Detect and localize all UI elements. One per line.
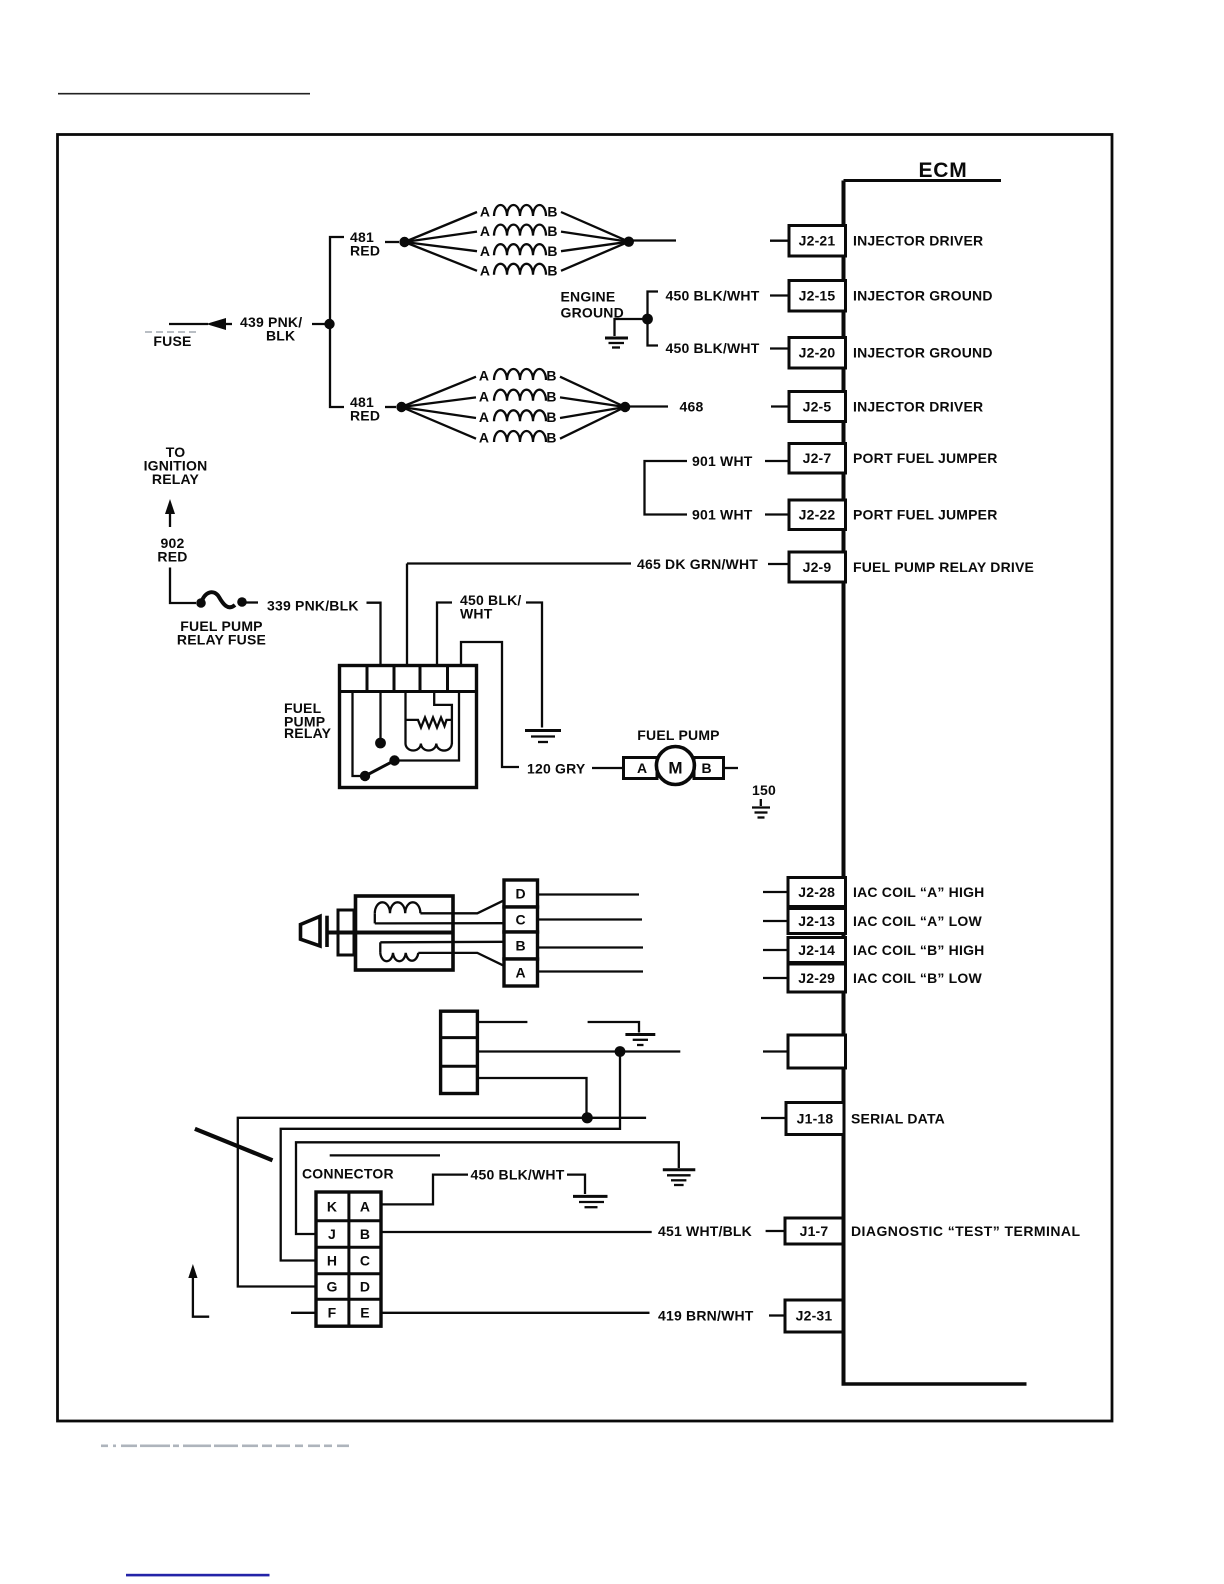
border frame — [58, 135, 1113, 1422]
fuse symbol (fuel pump relay fuse) — [196, 592, 258, 608]
svg-text:WHT: WHT — [460, 605, 493, 621]
svg-text:A: A — [360, 1199, 370, 1215]
svg-text:IAC COIL “A” LOW: IAC COIL “A” LOW — [853, 913, 983, 929]
relay switch contacts — [360, 692, 459, 782]
svg-text:A: A — [479, 368, 489, 384]
svg-text:J2-7: J2-7 — [803, 450, 832, 466]
wire J row trunk to ground — [296, 1142, 679, 1234]
ground (450 BLK/WHT ALDL) — [573, 1196, 608, 1207]
wire 465 DK GRN/WHT — [407, 564, 789, 666]
fuel pump motor — [624, 747, 739, 785]
wire 3-cell top — [477, 1021, 527, 1023]
svg-text:RELAY: RELAY — [284, 725, 332, 741]
pin J2-21 — [770, 226, 983, 257]
diagonal slash — [195, 1129, 273, 1161]
wire A pin to 450 BLK/WHT — [381, 1175, 468, 1205]
wire IAC B — [538, 946, 644, 948]
wire 439 PNK/BLK with arrow to fuse — [169, 318, 330, 330]
svg-text:INJECTOR DRIVER: INJECTOR DRIVER — [853, 233, 983, 249]
wire 450 BLK/WHT upper to J2-15 — [648, 292, 790, 320]
svg-text:J2-15: J2-15 — [799, 288, 836, 304]
relay left inner wire — [353, 692, 361, 777]
engine ground label — [561, 288, 624, 320]
svg-text:IAC COIL “A” HIGH: IAC COIL “A” HIGH — [853, 884, 984, 900]
injector coil bank1 row2 — [405, 223, 629, 242]
IAC coil A (top) — [375, 900, 504, 923]
svg-text:B: B — [360, 1226, 370, 1242]
injector coil bank1 row3 — [405, 242, 629, 259]
svg-text:J1-18: J1-18 — [797, 1111, 834, 1127]
svg-text:J2-5: J2-5 — [803, 399, 832, 415]
svg-text:D: D — [516, 886, 526, 902]
svg-text:B: B — [546, 368, 556, 384]
pin J2-5 — [789, 392, 983, 422]
svg-text:B: B — [547, 243, 557, 259]
wire IAC C — [538, 918, 643, 920]
svg-text:450 BLK/WHT: 450 BLK/WHT — [471, 1166, 565, 1182]
pin J2-13 — [763, 909, 983, 934]
svg-text:K: K — [327, 1199, 337, 1215]
svg-text:A: A — [479, 430, 489, 446]
svg-text:G: G — [326, 1279, 337, 1295]
relay coil — [406, 692, 452, 751]
svg-text:IAC COIL “B” HIGH: IAC COIL “B” HIGH — [853, 942, 984, 958]
svg-text:RELAY FUSE: RELAY FUSE — [177, 632, 266, 648]
wire stub to J1-7 — [766, 1230, 785, 1232]
svg-text:J2-29: J2-29 — [798, 970, 835, 986]
svg-text:A: A — [479, 409, 489, 425]
IAC thread block — [338, 910, 354, 955]
svg-text:IAC COIL “B” LOW: IAC COIL “B” LOW — [853, 970, 983, 986]
pin J1-7 — [785, 1218, 1080, 1244]
svg-text:FUEL PUMP RELAY DRIVE: FUEL PUMP RELAY DRIVE — [853, 559, 1034, 575]
wire 450 BLK/WHT right branch to ground — [526, 603, 542, 728]
ground (top right of 3-cell) — [588, 1022, 656, 1045]
svg-text:F: F — [328, 1305, 337, 1321]
svg-text:B: B — [547, 204, 557, 220]
wire F stub — [291, 1312, 316, 1314]
blue footer underline — [126, 1574, 270, 1577]
wire 339 PNK/BLK to relay — [367, 603, 381, 666]
svg-text:J2-13: J2-13 — [798, 913, 835, 929]
wire segment above CONNECTOR — [330, 1154, 440, 1156]
ECM bottom edge — [842, 1382, 1027, 1386]
wire to bank1 left node — [385, 241, 399, 243]
ALDL connector grid — [316, 1192, 381, 1326]
injector bank 1: left bracket and 481 RED bus — [330, 237, 344, 407]
svg-text:A: A — [516, 965, 526, 981]
svg-text:DIAGNOSTIC “TEST” TERMINAL: DIAGNOSTIC “TEST” TERMINAL — [851, 1223, 1080, 1239]
wire serial data trunk (G row) — [238, 1118, 646, 1287]
label TO IGNITION RELAY — [144, 444, 208, 487]
svg-text:C: C — [360, 1253, 370, 1269]
svg-text:RED: RED — [350, 408, 380, 424]
svg-text:901 WHT: 901 WHT — [692, 453, 753, 469]
pin J2-28 — [763, 878, 984, 907]
svg-text:J2-14: J2-14 — [798, 942, 835, 958]
svg-text:450 BLK/WHT: 450 BLK/WHT — [666, 287, 760, 303]
label 439 PNK/BLK — [240, 314, 302, 344]
ECM main vertical line — [842, 181, 846, 1386]
pin J2-7 — [789, 444, 998, 474]
svg-text:FUEL PUMP: FUEL PUMP — [637, 727, 719, 743]
svg-text:451 WHT/BLK: 451 WHT/BLK — [658, 1223, 752, 1239]
svg-text:901 WHT: 901 WHT — [692, 506, 753, 522]
svg-text:H: H — [327, 1253, 337, 1269]
title underline — [58, 93, 310, 95]
svg-text:INJECTOR GROUND: INJECTOR GROUND — [853, 288, 993, 304]
svg-text:J2-9: J2-9 — [803, 559, 832, 575]
engine ground symbol — [605, 319, 648, 348]
svg-text:INJECTOR DRIVER: INJECTOR DRIVER — [853, 399, 983, 415]
IAC cone — [301, 916, 328, 947]
label 450 BLK/WHT (relay) — [460, 592, 522, 622]
ground (450 BLK/WHT) — [525, 731, 561, 743]
pin J2-29 — [763, 964, 983, 992]
svg-text:J1-7: J1-7 — [800, 1223, 829, 1239]
pin J2-22 — [789, 500, 998, 530]
relay coil feed wire — [434, 692, 452, 745]
node bank2 right — [620, 402, 630, 412]
svg-text:J: J — [328, 1226, 336, 1242]
wire E pin 419 BRN/WHT — [381, 1312, 650, 1314]
svg-text:465 DK GRN/WHT: 465 DK GRN/WHT — [637, 556, 758, 572]
svg-text:PORT FUEL JUMPER: PORT FUEL JUMPER — [853, 450, 998, 466]
svg-text:FUSE: FUSE — [153, 333, 191, 349]
label FUEL PUMP RELAY FUSE — [177, 618, 266, 648]
svg-text:150: 150 — [752, 782, 776, 798]
node bank2 left — [396, 402, 406, 412]
svg-text:A: A — [480, 223, 490, 239]
arrow symbol bottom left — [188, 1264, 209, 1317]
svg-text:B: B — [702, 760, 712, 776]
svg-text:B: B — [547, 223, 557, 239]
faint line under FUSE — [145, 331, 200, 333]
pin J2-31 — [785, 1300, 843, 1332]
svg-text:PORT FUEL JUMPER: PORT FUEL JUMPER — [853, 507, 998, 523]
svg-text:SERIAL DATA: SERIAL DATA — [851, 1111, 945, 1127]
pin blank — [763, 1035, 846, 1068]
svg-text:D: D — [360, 1279, 370, 1295]
wire 450 BLK/WHT lower to J2-20 — [648, 319, 790, 349]
wire 120 GRY from relay — [461, 642, 519, 767]
svg-text:A: A — [480, 262, 490, 278]
svg-text:ENGINE: ENGINE — [561, 288, 616, 304]
faint footer marks — [101, 1445, 349, 1448]
wire B pin 451 WHT/BLK — [381, 1231, 652, 1233]
wire stub to J2-31 — [769, 1314, 785, 1316]
node bank1 left — [399, 237, 409, 247]
svg-text:ECM: ECM — [918, 159, 967, 182]
svg-text:M: M — [668, 759, 682, 778]
wire bank2 output to 468 — [625, 405, 668, 407]
wire 450 BLK/WHT left branch into relay — [437, 603, 452, 666]
label 902 RED — [157, 535, 187, 565]
svg-text:J2-28: J2-28 — [798, 884, 835, 900]
node on 481 bus — [324, 319, 334, 329]
svg-text:B: B — [546, 430, 556, 446]
svg-text:B: B — [546, 409, 556, 425]
wire to bank2 left node — [385, 406, 396, 408]
pin J2-20 — [789, 338, 993, 369]
wire 450 BLK/WHT to ground — [567, 1175, 585, 1194]
injector coil bank2 row2 — [402, 388, 626, 407]
wire stub to J2-5 — [771, 405, 789, 407]
wire 902 RED — [170, 568, 196, 604]
wire IAC D — [538, 893, 640, 895]
svg-text:J2-21: J2-21 — [799, 233, 836, 249]
ground 150 — [752, 799, 770, 818]
svg-text:468: 468 — [680, 399, 704, 415]
svg-text:E: E — [360, 1305, 370, 1321]
svg-text:A: A — [637, 760, 647, 776]
svg-text:INJECTOR GROUND: INJECTOR GROUND — [853, 345, 993, 361]
svg-text:A: A — [479, 388, 489, 404]
injector coil bank1 row1 — [405, 204, 629, 242]
pin J2-9 — [789, 552, 1034, 582]
node engine ground — [642, 314, 653, 325]
svg-text:B: B — [546, 388, 556, 404]
fuel pump relay box — [340, 666, 477, 788]
label 481 RED (bank 1) — [350, 229, 380, 259]
svg-text:J2-22: J2-22 — [799, 507, 836, 523]
wire 3-cell bottom — [477, 1078, 586, 1118]
IAC connector pins D C B A — [504, 880, 538, 986]
wire 120 GRY to pump — [592, 767, 624, 769]
node bank1 right — [624, 237, 634, 247]
label 481 RED (bank 2) — [350, 394, 380, 424]
injector coil bank2 row3 — [402, 407, 626, 425]
pin J1-18 — [761, 1103, 945, 1135]
svg-text:339 PNK/BLK: 339 PNK/BLK — [267, 598, 359, 614]
label FUEL PUMP RELAY — [284, 700, 332, 741]
relay switch arm wire — [375, 692, 386, 749]
svg-text:C: C — [516, 912, 526, 928]
svg-text:A: A — [480, 243, 490, 259]
injector coil bank2 row4 — [402, 407, 626, 446]
injector coil bank1 row4 — [405, 242, 629, 279]
svg-text:B: B — [547, 262, 557, 278]
arrow to ignition relay — [165, 499, 175, 527]
pin J2-15 — [789, 281, 993, 312]
ALDL pin letters — [326, 1199, 370, 1321]
svg-text:BLK: BLK — [266, 328, 295, 344]
wire 901 WHT bracket — [645, 461, 790, 515]
svg-text:CONNECTOR: CONNECTOR — [302, 1166, 394, 1182]
svg-text:B: B — [516, 938, 526, 954]
node serial data junction — [582, 1112, 593, 1123]
IAC coil B (bottom) — [380, 942, 504, 966]
IAC armature axis — [327, 931, 453, 935]
3-cell connector — [441, 1011, 478, 1093]
wire H row trunk — [281, 1052, 620, 1261]
svg-text:A: A — [480, 204, 490, 220]
injector coil bank2 row1 — [402, 368, 626, 407]
svg-text:J2-31: J2-31 — [796, 1308, 833, 1324]
IAC body box — [356, 896, 454, 970]
wire bank1 output — [629, 239, 676, 241]
svg-text:450 BLK/WHT: 450 BLK/WHT — [666, 340, 760, 356]
wire IAC A — [538, 970, 644, 972]
svg-text:RED: RED — [350, 243, 380, 259]
ground (J row) — [663, 1170, 696, 1185]
svg-text:120 GRY: 120 GRY — [527, 761, 586, 777]
svg-text:RED: RED — [157, 549, 187, 565]
svg-text:RELAY: RELAY — [152, 471, 200, 487]
wire 3-cell middle to ECM blank pin — [477, 1046, 680, 1057]
ECM top edge — [844, 179, 1002, 182]
svg-text:419 BRN/WHT: 419 BRN/WHT — [658, 1307, 754, 1323]
svg-text:J2-20: J2-20 — [799, 345, 836, 361]
pin J2-14 — [763, 938, 984, 963]
